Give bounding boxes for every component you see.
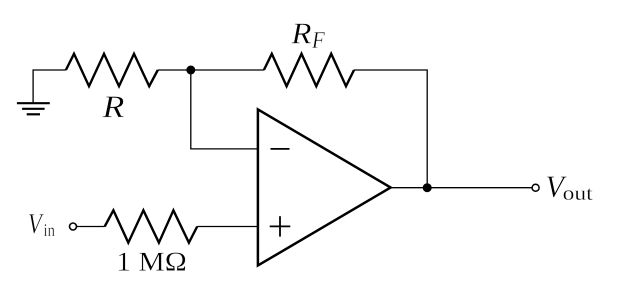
resistor R xyxy=(66,54,158,86)
label Vout xyxy=(547,177,567,198)
wire R to RF xyxy=(158,69,264,71)
wire output xyxy=(391,187,532,189)
wire inverting input xyxy=(191,70,258,149)
wire 1 Mohm to non-inverting input xyxy=(197,226,258,228)
ground xyxy=(17,103,50,114)
resistor 1 Mohm xyxy=(105,210,198,242)
label RF xyxy=(291,24,311,44)
wire RF to output node xyxy=(354,70,427,188)
node junction (output) xyxy=(423,183,432,192)
label 1 Mohm xyxy=(119,253,186,271)
wire ground to resistor R xyxy=(33,70,66,103)
op-amp U1 xyxy=(258,109,391,265)
label Vin xyxy=(29,214,44,233)
op-amp non-inverting input marker (plus) xyxy=(270,216,291,236)
terminal Vin xyxy=(70,223,77,230)
op-amp inverting input marker (minus) xyxy=(271,148,290,150)
label R xyxy=(102,97,124,118)
wire Vin to resistor xyxy=(77,226,105,228)
resistor RF xyxy=(264,54,354,86)
terminal Vout xyxy=(532,184,539,191)
node junction (inverting net) xyxy=(186,66,195,75)
